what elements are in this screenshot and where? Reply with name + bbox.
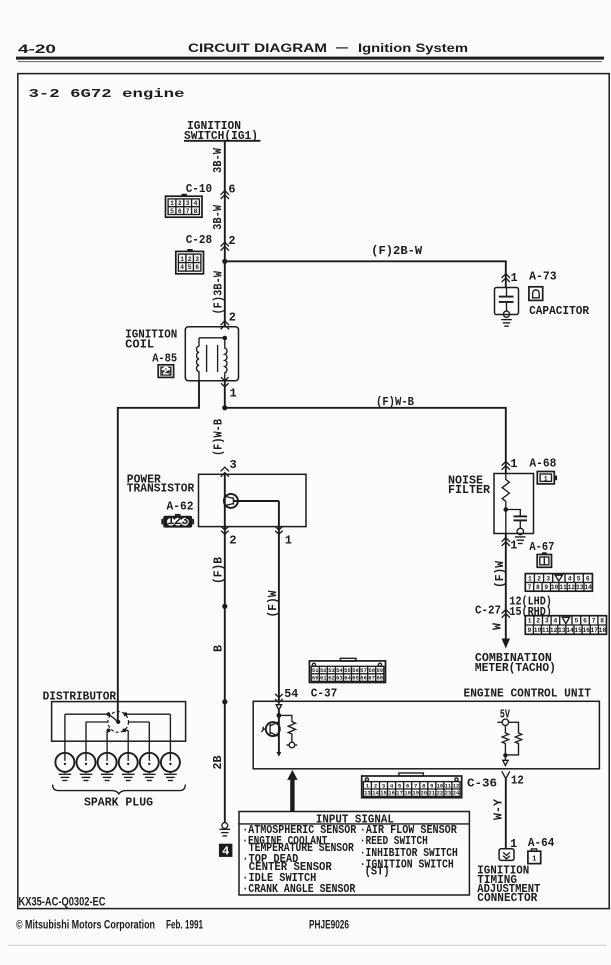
page number 4-20 xyxy=(18,42,56,56)
ignition coil T1 (A-85) box xyxy=(185,327,238,381)
spark plug 2 xyxy=(77,753,96,781)
svg-text:9: 9 xyxy=(528,627,532,634)
svg-text:6: 6 xyxy=(195,264,199,271)
ECU 5V supply xyxy=(497,708,513,726)
svg-text:55: 55 xyxy=(344,667,351,674)
label SPARK PLUG xyxy=(84,796,153,810)
svg-text:65: 65 xyxy=(352,675,359,682)
svg-text:22: 22 xyxy=(437,790,444,797)
distributor box xyxy=(52,702,186,742)
connector C-10 in-line marker, pin 6 xyxy=(186,182,236,199)
svg-text:11: 11 xyxy=(542,627,550,634)
wire through transistor xyxy=(224,474,226,526)
label COMBINATION METER(TACHO) xyxy=(475,651,556,675)
svg-text:15: 15 xyxy=(380,790,387,797)
wire coil pin1 down to junction xyxy=(222,381,227,411)
splice node on 2B wire xyxy=(222,699,227,704)
svg-text:52: 52 xyxy=(320,667,327,674)
engine control unit box xyxy=(253,701,599,769)
wire label 3B-W (upper) xyxy=(211,147,225,173)
svg-text:—: — xyxy=(336,40,348,54)
label IGNITION COIL A-85 xyxy=(125,328,177,366)
svg-text:(F)W-B: (F)W-B xyxy=(211,419,225,456)
ECU output arrow xyxy=(503,755,508,765)
svg-text:(F)B: (F)B xyxy=(211,557,225,584)
svg-text:METER(TACHO): METER(TACHO) xyxy=(475,661,556,675)
svg-text:FILTER: FILTER xyxy=(448,483,491,497)
wire noise filter to combination meter xyxy=(505,534,507,639)
svg-text:2: 2 xyxy=(537,575,541,582)
svg-text:A-62: A-62 xyxy=(167,500,194,514)
svg-text:4: 4 xyxy=(390,782,394,789)
svg-text:62: 62 xyxy=(328,675,335,682)
spark plug 3 xyxy=(98,753,117,781)
connector marker pin 2 at ignition coil xyxy=(221,311,236,330)
svg-text:2: 2 xyxy=(188,256,192,263)
svg-text:5: 5 xyxy=(575,618,579,625)
svg-text:1: 1 xyxy=(511,271,518,285)
arrow to combination meter xyxy=(502,639,510,649)
wire ignition switch to coil (vertical main) xyxy=(224,141,226,327)
ECU pull-up resistor R (left) xyxy=(502,726,508,758)
svg-text:A-73: A-73 xyxy=(529,270,557,284)
svg-text:7: 7 xyxy=(592,618,596,625)
svg-text:W-Y: W-Y xyxy=(492,798,506,820)
power transistor Q (A-62) box xyxy=(199,474,307,526)
wire label W xyxy=(491,622,505,630)
svg-text:14: 14 xyxy=(566,627,574,634)
svg-text:7: 7 xyxy=(414,782,417,789)
coil core xyxy=(207,345,218,372)
svg-text:23: 23 xyxy=(445,790,452,797)
svg-text:14: 14 xyxy=(372,790,379,797)
svg-text:CIRCUIT DIAGRAM: CIRCUIT DIAGRAM xyxy=(188,41,327,55)
connector C-37 marker pin 54 xyxy=(275,687,337,703)
connector icon A-67 xyxy=(537,552,551,567)
ignition timing adjustment connector terminal xyxy=(499,836,554,860)
wire ECU to ignition timing connector xyxy=(505,779,507,849)
svg-text:2: 2 xyxy=(178,200,182,207)
svg-text:C-10: C-10 xyxy=(186,182,213,196)
connector marker pin 1 below noise filter xyxy=(502,538,555,554)
connector C-36 marker pin 12 xyxy=(467,771,524,790)
coil secondary winding xyxy=(223,336,228,381)
label INPUT SIGNAL xyxy=(316,812,394,826)
wire label (F)W-B vertical xyxy=(211,419,225,456)
svg-text:A-67: A-67 xyxy=(529,540,554,554)
noise filter box xyxy=(494,474,534,534)
svg-text:A-85: A-85 xyxy=(152,352,177,366)
svg-text:9: 9 xyxy=(430,782,433,789)
svg-text:(F)2B-W: (F)2B-W xyxy=(371,244,423,258)
svg-text:15: 15 xyxy=(574,627,582,634)
wire label (F)W-B horizontal xyxy=(376,395,414,409)
svg-text:A-68: A-68 xyxy=(529,457,556,471)
connector marker pin 1 at capacitor xyxy=(502,270,557,286)
connector C-27 RHD pin block xyxy=(525,616,606,635)
spark plug 5 xyxy=(140,753,159,781)
svg-text:21: 21 xyxy=(428,790,435,797)
svg-text:4-20: 4-20 xyxy=(18,42,56,56)
svg-text:10: 10 xyxy=(534,627,542,634)
wire label 2B xyxy=(211,756,225,770)
svg-text:PHJE9026: PHJE9026 xyxy=(309,917,349,931)
arrow input signal to ECU xyxy=(287,770,297,812)
svg-text:3B-W: 3B-W xyxy=(211,204,225,230)
section title 3-2 6G72 engine xyxy=(29,87,185,101)
svg-text:67: 67 xyxy=(368,675,375,682)
wire label W-Y xyxy=(492,798,506,820)
svg-text:61: 61 xyxy=(320,675,327,682)
svg-text:20: 20 xyxy=(420,790,427,797)
svg-text:57: 57 xyxy=(360,667,367,674)
svg-text:66: 66 xyxy=(360,675,367,682)
wire label (F)B xyxy=(211,557,225,584)
wire junction to noise filter (horizontal) xyxy=(225,408,506,474)
junction node to capacitor branch xyxy=(222,259,227,264)
connector C-28 in-line marker, pin 2 xyxy=(186,233,236,251)
svg-text:17: 17 xyxy=(591,627,599,634)
svg-text:C-28: C-28 xyxy=(186,233,213,247)
svg-text:53: 53 xyxy=(328,667,335,674)
svg-text:1: 1 xyxy=(528,618,532,625)
svg-text:1: 1 xyxy=(532,855,537,863)
input signal list right column xyxy=(360,823,458,878)
connector marker pin 1 above noise filter xyxy=(502,457,557,472)
svg-text:13: 13 xyxy=(364,790,371,797)
svg-text:54: 54 xyxy=(284,687,298,701)
svg-text:(F)W: (F)W xyxy=(493,560,507,588)
svg-text:2: 2 xyxy=(229,534,236,548)
svg-text:1: 1 xyxy=(510,457,517,471)
svg-text:1: 1 xyxy=(510,539,517,553)
svg-text:COIL: COIL xyxy=(125,338,154,352)
svg-text:4: 4 xyxy=(554,618,558,625)
input signal box xyxy=(239,812,469,896)
svg-text:CONNECTOR: CONNECTOR xyxy=(477,891,538,905)
svg-text:1: 1 xyxy=(528,575,532,582)
svg-text:8: 8 xyxy=(600,618,604,625)
header rule xyxy=(16,57,604,63)
spark plug brace xyxy=(53,785,186,794)
svg-text:3: 3 xyxy=(545,618,549,625)
ECU base resistor R xyxy=(279,715,297,747)
wire label (F)W xyxy=(266,590,280,618)
connector icon A-64 xyxy=(528,849,541,864)
wire label (F)2B-W xyxy=(371,244,423,258)
splice node on black wire xyxy=(222,604,227,609)
svg-text:24: 24 xyxy=(453,790,460,797)
svg-text:W: W xyxy=(491,622,505,630)
svg-text:(F)3B-W: (F)3B-W xyxy=(212,270,226,314)
pin labels 12(LHD) 15(RHD) xyxy=(509,595,552,620)
connector C-36 pin block xyxy=(362,773,462,798)
svg-text:3: 3 xyxy=(382,782,386,789)
spark plug leads xyxy=(65,714,170,753)
svg-text:64: 64 xyxy=(344,675,351,682)
svg-text:CAPACITOR: CAPACITOR xyxy=(529,304,590,318)
svg-text:5: 5 xyxy=(170,208,174,215)
svg-text:17: 17 xyxy=(396,790,403,797)
connector marker pin 1 below transistor xyxy=(275,526,292,547)
svg-text:C-27: C-27 xyxy=(475,604,501,618)
svg-text:© Mitsubishi Motors Corporatio: © Mitsubishi Motors Corporation xyxy=(16,918,155,932)
svg-text:6: 6 xyxy=(178,208,182,215)
svg-text:TRANSISTOR: TRANSISTOR xyxy=(127,482,195,496)
connector icon A-85 xyxy=(158,365,173,379)
svg-text:18: 18 xyxy=(599,627,607,634)
svg-text:1: 1 xyxy=(285,534,292,548)
svg-text:9: 9 xyxy=(544,584,548,591)
connector C-37 pin block xyxy=(309,658,385,682)
input signal list left column xyxy=(242,823,357,896)
wire label B xyxy=(211,645,225,652)
svg-text:10: 10 xyxy=(437,782,444,789)
svg-text:58: 58 xyxy=(368,667,375,674)
footer code KX35-AC-Q0302-EC xyxy=(19,895,106,909)
svg-text:51: 51 xyxy=(312,667,319,674)
svg-text:KX35-AC-Q0302-EC: KX35-AC-Q0302-EC xyxy=(19,895,106,909)
svg-text:14: 14 xyxy=(584,584,592,591)
svg-text:3: 3 xyxy=(230,458,237,472)
ECU internal transistor Q xyxy=(261,722,281,757)
footer document number PHJE9026 xyxy=(309,917,349,931)
svg-text:3: 3 xyxy=(546,575,550,582)
svg-text:5: 5 xyxy=(398,782,402,789)
svg-text:3: 3 xyxy=(186,200,190,207)
noise filter resistor xyxy=(502,474,509,534)
connector marker pin 3 at power transistor xyxy=(221,458,237,477)
svg-text:8: 8 xyxy=(422,782,426,789)
svg-text:18: 18 xyxy=(404,790,411,797)
svg-text:16: 16 xyxy=(582,627,590,634)
svg-text:1: 1 xyxy=(230,387,237,401)
wire transistor outputs xyxy=(278,501,280,527)
svg-text:4: 4 xyxy=(222,845,229,859)
svg-text:(ST): (ST) xyxy=(365,865,390,879)
svg-text:4: 4 xyxy=(180,264,184,271)
ground G (body earth) for spark circuit xyxy=(220,823,231,836)
svg-text:3: 3 xyxy=(181,514,188,528)
svg-text:10: 10 xyxy=(551,584,559,591)
svg-text:2: 2 xyxy=(374,782,377,789)
svg-text:8: 8 xyxy=(194,208,198,215)
svg-text:13: 13 xyxy=(558,627,566,634)
svg-text:3: 3 xyxy=(195,256,199,263)
svg-text:4: 4 xyxy=(194,200,198,207)
svg-text:(F)W: (F)W xyxy=(266,590,280,618)
distributor rotor xyxy=(107,712,129,733)
connector C-27 marker xyxy=(475,604,510,618)
connector C-10 pin box icon xyxy=(166,194,203,217)
label ENGINE CONTROL UNIT xyxy=(464,687,592,701)
svg-text:19: 19 xyxy=(412,790,419,797)
svg-text:2B: 2B xyxy=(211,756,225,770)
svg-text:60: 60 xyxy=(312,675,319,682)
svg-text:A-64: A-64 xyxy=(528,836,555,850)
capacitor C (A-73) xyxy=(495,288,519,318)
svg-text:Ignition System: Ignition System xyxy=(358,41,468,55)
distributor cap wiring xyxy=(65,714,170,730)
svg-text:5: 5 xyxy=(188,264,192,271)
svg-text:3B-W: 3B-W xyxy=(211,147,225,173)
wire branch to capacitor A-73 xyxy=(225,261,506,287)
svg-text:12: 12 xyxy=(550,627,558,634)
svg-text:11: 11 xyxy=(445,782,452,789)
ground below noise filter xyxy=(515,537,526,544)
ground below capacitor xyxy=(501,320,512,327)
svg-text:2: 2 xyxy=(228,234,235,248)
svg-text:12: 12 xyxy=(568,584,576,591)
svg-text:4: 4 xyxy=(568,575,572,582)
svg-text:5: 5 xyxy=(577,575,581,582)
svg-text:2: 2 xyxy=(536,618,540,625)
svg-text:(F)W-B: (F)W-B xyxy=(376,395,414,409)
connector marker pin 1 below coil xyxy=(221,377,237,400)
connector C-27 LHD pin block xyxy=(525,574,592,592)
svg-text:1: 1 xyxy=(180,256,184,263)
svg-text:C-37: C-37 xyxy=(311,687,338,701)
ECU pull-up resistor R (right) xyxy=(505,722,521,755)
svg-text:6: 6 xyxy=(406,782,409,789)
svg-text:11: 11 xyxy=(559,584,567,591)
svg-text:7: 7 xyxy=(528,584,532,591)
svg-text:1: 1 xyxy=(170,200,174,207)
svg-text:B: B xyxy=(211,645,225,652)
svg-text:1: 1 xyxy=(544,476,548,483)
label DISTRIBUTOR xyxy=(43,690,117,704)
spark plug 6 xyxy=(161,753,180,781)
ground reference marker 4 xyxy=(219,844,233,859)
ECU input stage wire xyxy=(276,701,281,752)
connector icon A-62 xyxy=(161,514,194,528)
wire label (F)3B-W xyxy=(212,270,226,314)
wire label 3B-W (lower) xyxy=(211,204,225,230)
connector C-28 pin box icon xyxy=(176,249,204,274)
svg-text:8: 8 xyxy=(536,584,540,591)
svg-text:6: 6 xyxy=(583,618,587,625)
wire coil secondary to distributor (left path) xyxy=(118,381,199,722)
wire label (F)W to meter xyxy=(493,560,507,588)
label CAPACITOR xyxy=(529,304,590,318)
footer copyright xyxy=(16,918,203,932)
svg-text:3-2 6G72 engine: 3-2 6G72 engine xyxy=(29,87,185,101)
svg-text:SPARK PLUG: SPARK PLUG xyxy=(84,796,153,810)
label POWER TRANSISTOR A-62 xyxy=(127,473,195,514)
svg-text:7: 7 xyxy=(186,208,190,215)
label IGNITION TIMING ADJUSTMENT CONNECTOR xyxy=(477,864,540,906)
spark plug 1 xyxy=(55,753,74,781)
svg-text:1: 1 xyxy=(510,837,517,851)
svg-text:2: 2 xyxy=(162,365,169,379)
svg-text:2: 2 xyxy=(229,311,236,325)
noise filter junction xyxy=(504,507,509,512)
connector icon A-73 xyxy=(529,287,543,301)
svg-text:16: 16 xyxy=(388,790,395,797)
wire transistor pin1 to ECU pin 54 xyxy=(278,527,280,702)
label NOISE FILTER xyxy=(448,474,491,498)
svg-text:54: 54 xyxy=(336,667,343,674)
footer faint rule xyxy=(8,945,606,946)
svg-text:68: 68 xyxy=(376,675,383,682)
svg-text:12: 12 xyxy=(511,774,524,788)
svg-text:C-36: C-36 xyxy=(467,777,497,791)
svg-text:56: 56 xyxy=(352,667,359,674)
svg-text:Feb. 1991: Feb. 1991 xyxy=(166,918,203,932)
spark plug 4 xyxy=(119,753,138,781)
wire transistor pin2 to ground xyxy=(224,527,226,823)
noise filter capacitor to ground xyxy=(506,510,527,535)
svg-text:1: 1 xyxy=(366,782,370,789)
coil primary winding xyxy=(197,338,225,381)
svg-text:59: 59 xyxy=(376,667,383,674)
node IGNITION SWITCH(IG1) xyxy=(184,119,261,143)
page title CIRCUIT DIAGRAM - Ignition System xyxy=(188,40,468,55)
connector icon A-68 xyxy=(537,472,557,484)
svg-text:ENGINE CONTROL UNIT: ENGINE CONTROL UNIT xyxy=(464,687,592,701)
svg-text:12: 12 xyxy=(453,782,460,789)
svg-text:·CRANK ANGLE SENSOR: ·CRANK ANGLE SENSOR xyxy=(242,882,356,896)
svg-text:6: 6 xyxy=(586,575,590,582)
connector marker pin 2 below transistor xyxy=(221,526,237,547)
svg-text:63: 63 xyxy=(336,675,343,682)
svg-text:13: 13 xyxy=(576,584,584,591)
svg-text:6: 6 xyxy=(228,183,235,197)
transistor symbol Q1 xyxy=(224,494,279,508)
